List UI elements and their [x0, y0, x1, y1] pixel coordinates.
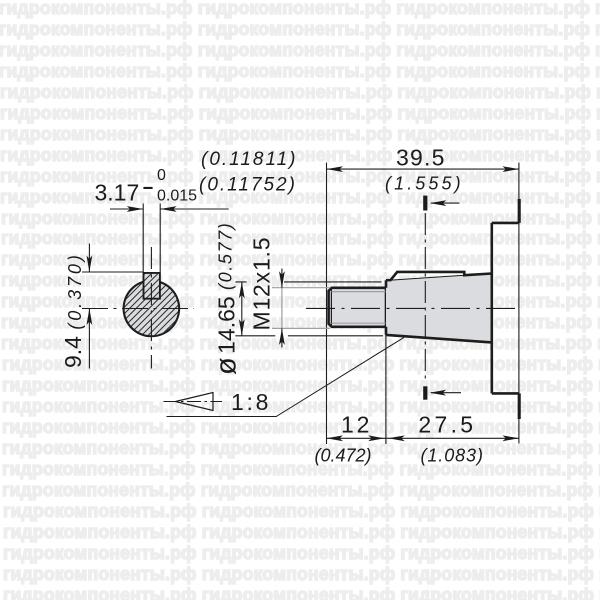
- svg-text:(1.083): (1.083): [421, 446, 484, 466]
- dim dia 14.65 dimension line and arrows: [241, 282, 243, 336]
- svg-text:ø 14.65 (0.577): ø 14.65 (0.577): [211, 222, 243, 375]
- dim 12 / 27.5 dimension line: [327, 437, 519, 439]
- svg-text:27.5: 27.5: [418, 411, 476, 437]
- dim dia 14.65 extension lines: [235, 282, 383, 336]
- horizontal centerline of end view: [82, 308, 194, 310]
- dim 9.4 extension line (keyway top): [82, 271, 144, 273]
- circle outline with gap at keyway: [124, 282, 180, 336]
- dim 12 / 27.5 extension line (middle): [385, 335, 387, 444]
- dim 39.5 dimension line: [327, 168, 519, 170]
- gauge plane top arrow: [431, 202, 460, 204]
- section hatching 45deg: [40, 245, 258, 372]
- dim M12x1.5 arrows: [281, 269, 283, 348]
- svg-text:39.5: 39.5: [396, 145, 446, 171]
- taper symbol centerline: [164, 401, 223, 403]
- keyway outline: [144, 273, 160, 299]
- taper symbol triangle: [176, 393, 214, 411]
- svg-text:M12x1.5: M12x1.5: [249, 237, 275, 331]
- svg-text:(0.472): (0.472): [315, 446, 372, 466]
- svg-text:12: 12: [341, 411, 372, 437]
- side view horizontal centerline: [306, 307, 522, 309]
- svg-text:(1.555): (1.555): [385, 174, 464, 194]
- watermark background rows: [0, 0, 600, 1]
- shaft end-view circle (hatched section): [124, 273, 180, 336]
- svg-text:0.015: 0.015: [157, 188, 197, 205]
- svg-text:9.4 (0.370): 9.4 (0.370): [60, 252, 86, 368]
- gauge plane bottom arrow: [431, 392, 461, 394]
- taper leader line: [167, 337, 405, 416]
- dim M12x1.5 extension lines (grey): [272, 288, 330, 329]
- gauge plane top tick: [423, 196, 427, 211]
- flange outline: [492, 223, 519, 394]
- thread chamfer line: [330, 290, 332, 326]
- dim 39.5 extension lines: [327, 163, 519, 444]
- vertical centerline of end view: [150, 247, 152, 369]
- dim 3.17 extension lines: [143, 204, 160, 273]
- svg-text:1:8: 1:8: [231, 389, 271, 415]
- dim 3.17 dimension line and arrows: [110, 208, 229, 210]
- flange right-end thick verticals: [518, 199, 521, 419]
- keyway slot (end view, hatched): [144, 273, 160, 299]
- gauge plane bottom tick: [423, 386, 427, 399]
- taper outline with key land: [386, 272, 492, 343]
- taper cone thin line under key land: [391, 275, 464, 280]
- svg-text:3.17: 3.17: [95, 180, 140, 206]
- dim 9.4 dimension line and arrows: [88, 244, 90, 369]
- tapered shaft section fill: [386, 274, 492, 343]
- svg-text:(0.11752): (0.11752): [199, 175, 297, 196]
- svg-text:0: 0: [157, 167, 166, 184]
- threaded shaft end M12 (side view body): [329, 288, 386, 327]
- thread minor diameter lines: [332, 292, 386, 324]
- gauge plane vertical centerline: [424, 213, 426, 381]
- svg-text:(0.11811): (0.11811): [201, 149, 298, 170]
